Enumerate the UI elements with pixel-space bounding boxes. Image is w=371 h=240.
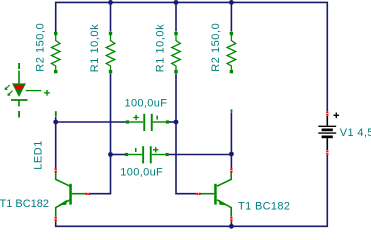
wire emitter Q2 stub — [230, 221, 232, 226]
svg-text:T1 BC182: T1 BC182 — [238, 200, 290, 212]
node junction base Q2 / C1 — [174, 120, 179, 125]
capacitor C1 (100uF) — [126, 114, 169, 131]
wire top rail — [56, 2, 328, 111]
svg-text:R1 10,0k: R1 10,0k — [89, 24, 101, 72]
svg-text:100,0uF: 100,0uF — [125, 97, 168, 109]
capacitor C2 (100uF) — [125, 146, 169, 163]
pin marks Q1 collector — [55, 168, 57, 172]
LED D1 — [11, 63, 41, 118]
resistor R1 (first, 10k) — [106, 32, 115, 74]
svg-text:100,0uF: 100,0uF — [120, 166, 163, 178]
node junction collector Q1 / C1 — [53, 120, 58, 125]
wire drop R2a column to Q1 collector — [55, 117, 57, 169]
node junction top rail x231 — [229, 0, 234, 5]
resistor R2 (second, 150 ohm) — [227, 32, 236, 74]
transistor Q1 (T1 BC182 left) — [56, 172, 86, 217]
pin marks Q2 collector — [230, 168, 232, 172]
wire capacitor C1 row — [56, 121, 176, 123]
svg-text:R2 150,0: R2 150,0 — [35, 23, 47, 72]
node junction top rail x176 — [174, 0, 179, 5]
pin marks battery top — [326, 111, 328, 115]
LED plus sign — [44, 90, 50, 96]
pin marks battery bottom — [326, 150, 328, 154]
LED light arrows — [5, 85, 13, 96]
pin stub below R2a — [55, 111, 57, 116]
capacitor C1 plus sign — [133, 115, 138, 120]
svg-text:V1 4,5: V1 4,5 — [340, 127, 371, 139]
svg-text:T1 BC182: T1 BC182 — [0, 198, 49, 210]
resistor R1 (second, 10k) — [172, 32, 181, 74]
capacitor C2 plus sign — [153, 147, 158, 152]
wire drop R1a column — [90, 2, 111, 193]
node junction top rail x110 — [108, 0, 113, 5]
node junction emitter Q2 / bottom rail — [229, 224, 234, 229]
pin marks Q2 emitter — [230, 217, 232, 221]
pin stub below R2b — [231, 109, 233, 112]
wire drop R1b column — [176, 2, 196, 193]
svg-text:R1 10,0k: R1 10,0k — [155, 24, 167, 72]
node junction collector Q2 / C2 — [229, 152, 234, 157]
resistor R2 (first, 150 ohm) — [51, 32, 60, 74]
pin marks Q1 base — [86, 193, 90, 195]
pin marks Q2 base — [196, 193, 200, 195]
wire bottom rail — [56, 155, 328, 226]
wire capacitor C2 row — [111, 154, 232, 156]
pin marks Q1 emitter — [55, 217, 57, 221]
wire drop R2b column — [230, 2, 232, 168]
battery plus sign — [334, 113, 340, 119]
svg-text:LED1: LED1 — [33, 140, 45, 170]
node junction base Q1 / C2 — [108, 152, 113, 157]
transistor Q2 (T1 BC182 right) — [200, 172, 231, 217]
battery V1 — [318, 116, 336, 150]
svg-text:R2 150,0: R2 150,0 — [210, 23, 222, 72]
